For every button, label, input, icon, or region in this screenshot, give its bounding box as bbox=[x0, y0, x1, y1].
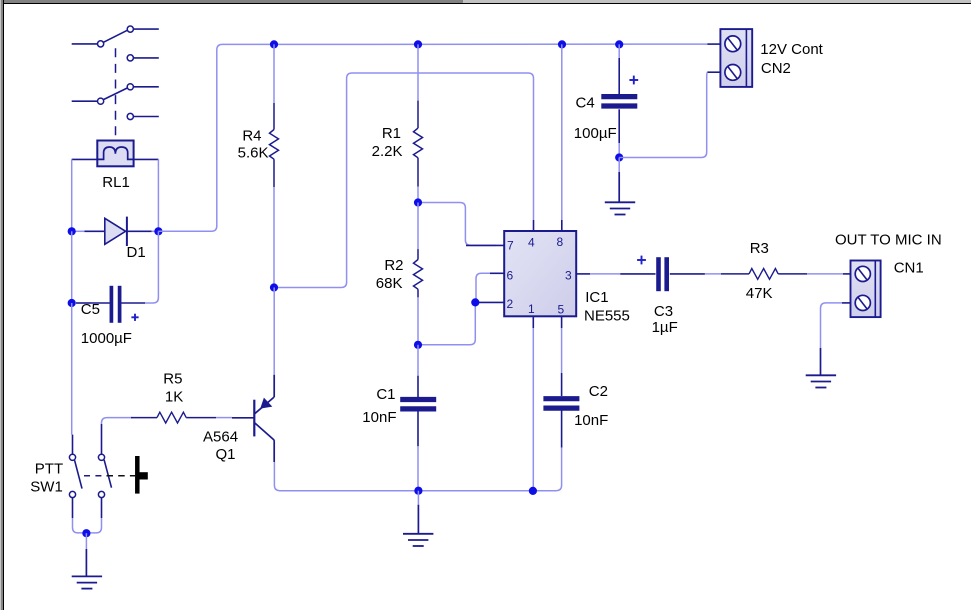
wire RL1 left vertical bbox=[71, 159, 73, 231]
IC1 pin 5 stub bbox=[561, 316, 563, 328]
label A564 bbox=[203, 429, 238, 446]
resistor R4 bbox=[270, 103, 279, 187]
svg-text:D1: D1 bbox=[127, 244, 146, 261]
svg-text:4: 4 bbox=[528, 236, 535, 250]
label R5 bbox=[163, 371, 182, 388]
wire relay throw 2 stub bbox=[133, 57, 159, 59]
svg-text:7: 7 bbox=[507, 239, 514, 253]
svg-text:C4: C4 bbox=[576, 95, 595, 112]
svg-text:2: 2 bbox=[507, 297, 514, 311]
ground symbol under SW1 bbox=[72, 576, 102, 588]
wire D1-junction to 12V rail bbox=[158, 44, 273, 231]
label 2.2K bbox=[372, 143, 403, 160]
node SW1 ground junction bbox=[82, 529, 90, 537]
label R1 bbox=[382, 125, 401, 142]
label Q1 bbox=[216, 446, 236, 463]
IC1 pin 2 stub bbox=[476, 301, 504, 303]
wire ground rail bbox=[274, 462, 533, 491]
relay contact set K1b (pole wire) bbox=[72, 100, 98, 102]
label C3 1uF bbox=[652, 319, 678, 336]
svg-text:5: 5 bbox=[558, 303, 565, 317]
relay coil RL1 bbox=[97, 141, 133, 167]
svg-text:C5: C5 bbox=[81, 301, 100, 318]
svg-text:RL1: RL1 bbox=[102, 174, 130, 191]
wire C4 ground drop bbox=[618, 158, 620, 203]
relay contact K1b moving arm bbox=[103, 88, 127, 100]
svg-text:3: 3 bbox=[565, 269, 572, 283]
svg-text:OUT TO MIC IN: OUT TO MIC IN bbox=[835, 232, 942, 249]
wire C4 bottom bbox=[618, 143, 620, 158]
svg-text:1K: 1K bbox=[165, 389, 183, 406]
node R2-C1 junction bbox=[414, 341, 422, 349]
label 68K bbox=[376, 275, 403, 292]
node C5 left junction bbox=[68, 299, 76, 307]
wire R4 top bbox=[273, 44, 275, 103]
svg-text:A564: A564 bbox=[203, 429, 238, 446]
svg-text:CN1: CN1 bbox=[894, 260, 924, 277]
wire pin5 to C2 bbox=[561, 328, 563, 373]
svg-text:12V Cont: 12V Cont bbox=[760, 41, 823, 58]
switch SW1 arm b bbox=[104, 460, 111, 488]
label R3 bbox=[750, 240, 769, 257]
svg-text:2.2K: 2.2K bbox=[372, 143, 403, 160]
node rail-C4 bbox=[615, 40, 623, 48]
capacitor C4 plus bbox=[629, 76, 638, 85]
ground symbol under C4 bbox=[605, 202, 635, 214]
wire C4 top bbox=[618, 44, 620, 58]
node rail-R1 bbox=[414, 40, 422, 48]
label D1 bbox=[127, 244, 146, 261]
wire 12V rail bbox=[273, 43, 707, 45]
svg-text:R3: R3 bbox=[750, 240, 769, 257]
svg-text:5.6K: 5.6K bbox=[238, 145, 269, 162]
node rail-pin1 junction bbox=[529, 487, 537, 495]
label 1K bbox=[165, 389, 183, 406]
svg-text:6: 6 bbox=[507, 269, 514, 283]
node C4/CN2 junction bbox=[615, 153, 623, 161]
switch SW1 contact b top bbox=[98, 454, 104, 460]
wire left vertical D1 to C5 bbox=[71, 231, 73, 303]
wire relay throw 1 stub bbox=[133, 28, 159, 30]
wire pin1 to ground rail bbox=[532, 328, 534, 491]
wire RL1 right lead bbox=[134, 158, 159, 160]
wire CN1 pin2 to ground bbox=[821, 303, 843, 375]
timer IC1 NE555 body bbox=[504, 231, 576, 316]
wire R4 bottom bbox=[273, 187, 275, 288]
transistor Q1 base lead bbox=[232, 417, 254, 419]
capacitor C3 plus bbox=[637, 256, 646, 265]
label CN1 bbox=[894, 260, 924, 277]
capacitor C2 bbox=[543, 373, 579, 448]
IC1 pin 1 stub bbox=[532, 316, 534, 328]
resistor R2 bbox=[414, 249, 423, 297]
label C5 1000uF bbox=[81, 330, 132, 347]
svg-text:100µF: 100µF bbox=[574, 125, 617, 142]
node R1-R2 junction bbox=[414, 198, 422, 206]
wire R1/R2 junction to pin7 bbox=[418, 203, 496, 246]
label C5 bbox=[81, 301, 100, 318]
label R4 bbox=[242, 128, 261, 145]
node rail-C1 junction bbox=[414, 487, 422, 495]
relay contact set K1a (pole wire) bbox=[72, 43, 98, 45]
transistor Q1 A564 bbox=[254, 397, 274, 440]
wire D1 cathode bbox=[152, 230, 159, 232]
wire D1 anode bbox=[72, 230, 85, 232]
svg-text:1: 1 bbox=[528, 302, 535, 316]
relay actuation dashed link bbox=[115, 48, 117, 139]
wire SW1 b to R5 bbox=[102, 418, 133, 424]
IC1 pin numbers 7 4 8 6 3 2 1 5 bbox=[507, 235, 573, 317]
pushbutton actuator symbol bbox=[137, 456, 148, 494]
switch SW1 contact a top bbox=[69, 454, 75, 460]
wire SW1 bottoms to ground node bbox=[73, 498, 102, 533]
svg-text:SW1: SW1 bbox=[30, 479, 63, 496]
node rail-pin8 bbox=[558, 40, 566, 48]
relay contact K1a throw terminal (bottom) bbox=[127, 55, 133, 61]
wire C3 to R3 bbox=[705, 273, 721, 275]
wire RL1 left lead bbox=[72, 158, 98, 160]
node RL1/D1 left junction bbox=[68, 227, 76, 235]
svg-text:IC1: IC1 bbox=[585, 289, 608, 306]
svg-text:10nF: 10nF bbox=[362, 409, 396, 426]
wire R3 to CN1 bbox=[807, 273, 843, 275]
ground symbol under C1 bbox=[403, 534, 433, 546]
svg-text:C2: C2 bbox=[589, 383, 608, 400]
svg-text:1000µF: 1000µF bbox=[81, 330, 132, 347]
wire rail to CN2 stub bbox=[707, 43, 720, 45]
capacitor C4 bbox=[601, 58, 637, 143]
relay contact K1a moving arm bbox=[103, 30, 127, 42]
svg-text:10nF: 10nF bbox=[574, 412, 608, 429]
label C4 100uF bbox=[574, 125, 617, 142]
wire C5 right to D1 junction bbox=[145, 231, 158, 303]
wire pin3 to C3 bbox=[590, 273, 620, 275]
label CN2 bbox=[761, 60, 791, 77]
IC1 pin 3 stub bbox=[576, 273, 590, 275]
label 5.6K bbox=[238, 145, 269, 162]
switch SW1 dashed link bbox=[84, 475, 135, 477]
svg-text:1µF: 1µF bbox=[652, 319, 678, 336]
label SW1 bbox=[30, 479, 63, 496]
label C4 bbox=[576, 95, 595, 112]
relay contact K1b throw terminal (top) bbox=[127, 84, 133, 90]
wire pin8 to rail bbox=[561, 44, 563, 220]
label C2 bbox=[589, 383, 608, 400]
label IC1 bbox=[585, 289, 608, 306]
switch SW1 contact a bottom bbox=[69, 491, 75, 497]
svg-text:C1: C1 bbox=[376, 386, 395, 403]
connector CN2 (screw terminal) bbox=[720, 29, 752, 87]
relay contact K1b pole terminal bbox=[98, 98, 104, 104]
relay contact K1a pole terminal bbox=[98, 41, 104, 47]
wire R1 bottom bbox=[417, 187, 419, 203]
IC1 pin 7 stub bbox=[466, 244, 504, 246]
ground symbol under CN1 bbox=[806, 375, 836, 387]
label R2 bbox=[384, 257, 403, 274]
switch SW1 pole-a top lead bbox=[72, 435, 74, 455]
window frame top bbox=[0, 0, 971, 3]
wire pin6 to pin2 node bbox=[476, 273, 490, 302]
relay contact K1b throw terminal (bottom) bbox=[127, 113, 133, 119]
label C1 bbox=[376, 386, 395, 403]
label PTT bbox=[35, 461, 63, 478]
wire node-A to pin4 loop bbox=[274, 73, 534, 288]
capacitor C1 bbox=[400, 376, 436, 447]
window frame left bbox=[0, 0, 3, 610]
label C2 10nF bbox=[574, 412, 608, 429]
wire CN2 pin2 to C4 node bbox=[619, 72, 707, 157]
wire SW1 to ground bbox=[85, 533, 87, 576]
label OUT TO MIC IN bbox=[835, 232, 942, 249]
capacitor C5 bbox=[76, 286, 145, 323]
IC1 pin 8 stub bbox=[561, 220, 563, 231]
switch SW1 arm a bbox=[75, 460, 82, 488]
resistor R3 bbox=[721, 269, 807, 280]
svg-text:CN2: CN2 bbox=[761, 60, 791, 77]
wire C1 top bbox=[417, 345, 419, 376]
node A junction R4/Q1/pin4 bbox=[270, 283, 278, 291]
svg-text:R4: R4 bbox=[242, 128, 261, 145]
CN2 pin 2 stub bbox=[707, 71, 720, 73]
wire C1 ground drop bbox=[417, 491, 419, 534]
svg-text:8: 8 bbox=[557, 235, 564, 249]
wire C1 bottom bbox=[417, 446, 419, 490]
wire R2 bottom bbox=[417, 297, 419, 344]
wire Q1 collector down bbox=[273, 440, 275, 462]
node rail-R4 bbox=[270, 40, 278, 48]
wire Q1 emitter up bbox=[273, 288, 275, 398]
resistor R1 bbox=[414, 101, 423, 187]
wire relay throw 3 stub bbox=[133, 86, 159, 88]
svg-text:NE555: NE555 bbox=[584, 308, 630, 325]
node pin2/pin6 junction bbox=[471, 298, 479, 306]
svg-text:Q1: Q1 bbox=[216, 446, 236, 463]
svg-text:PTT: PTT bbox=[35, 461, 63, 478]
label 47K bbox=[746, 285, 773, 302]
wire relay throw 4 stub bbox=[133, 116, 159, 118]
wire R5 to Q1 base bbox=[216, 417, 232, 419]
switch SW1 contact b bottom bbox=[98, 491, 104, 497]
wire C2 bottom to rail bbox=[533, 448, 562, 491]
label NE555 bbox=[584, 308, 630, 325]
label RL1 bbox=[102, 174, 130, 191]
IC1 pin 4 stub bbox=[533, 220, 535, 231]
label C3 bbox=[654, 303, 673, 320]
svg-text:47K: 47K bbox=[746, 285, 773, 302]
relay contact K1a throw terminal (top) bbox=[127, 26, 133, 32]
svg-text:C3: C3 bbox=[654, 303, 673, 320]
capacitor C5 plus bbox=[131, 314, 138, 321]
capacitor C3 bbox=[620, 257, 705, 291]
CN1 pin 2 stub bbox=[842, 302, 851, 304]
wire R1 top bbox=[417, 44, 419, 100]
svg-text:68K: 68K bbox=[376, 275, 403, 292]
connector CN1 (screw terminal) bbox=[851, 261, 881, 318]
resistor R5 bbox=[131, 412, 216, 423]
wire R2/C1 junction to pin2 node bbox=[418, 302, 475, 344]
wire R2 top bbox=[417, 203, 419, 250]
wire SW1 pole-b top bbox=[101, 424, 103, 454]
wire C5 node down to SW1 bbox=[71, 303, 73, 435]
IC1 pin 6 stub bbox=[490, 272, 504, 274]
node RL1/D1 right junction bbox=[154, 227, 162, 235]
svg-text:R2: R2 bbox=[384, 257, 403, 274]
CN1 pin 1 stub bbox=[843, 273, 851, 275]
diode D1 bbox=[85, 217, 152, 246]
svg-text:R1: R1 bbox=[382, 125, 401, 142]
svg-text:R5: R5 bbox=[163, 371, 182, 388]
wire RL1 right vertical bbox=[157, 159, 159, 231]
label 12V Cont bbox=[760, 41, 823, 58]
label C1 10nF bbox=[362, 409, 396, 426]
